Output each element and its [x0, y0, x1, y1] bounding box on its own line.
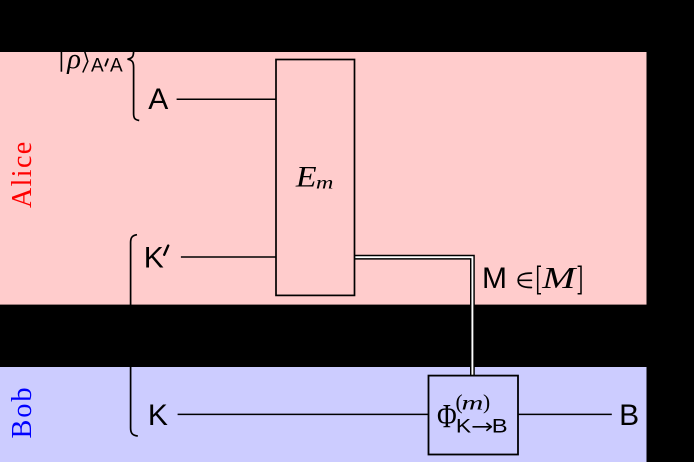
svg-text:): ): [483, 390, 490, 414]
svg-text:A: A: [110, 56, 123, 77]
svg-text:B: B: [492, 416, 508, 437]
svg-text:Alice: Alice: [7, 140, 38, 208]
svg-text:m: m: [316, 172, 334, 192]
svg-text:B: B: [619, 399, 639, 432]
svg-text:A: A: [148, 83, 168, 116]
svg-text:E: E: [295, 159, 317, 193]
svg-text:m: m: [462, 392, 484, 414]
svg-text:ρ: ρ: [66, 44, 81, 75]
svg-text:K: K: [456, 416, 471, 437]
svg-text:M: M: [541, 260, 578, 295]
svg-text:M: M: [482, 262, 507, 295]
svg-text:Φ: Φ: [437, 397, 457, 435]
svg-text:K: K: [144, 242, 164, 275]
svg-text:Bob: Bob: [7, 386, 38, 439]
svg-text:K: K: [148, 399, 168, 432]
svg-text:A: A: [91, 56, 104, 77]
